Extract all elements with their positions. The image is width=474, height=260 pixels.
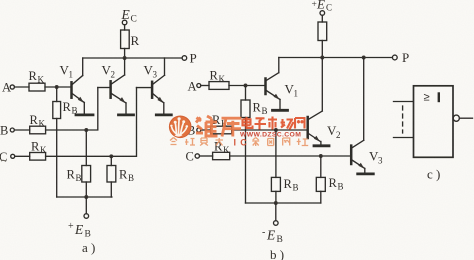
ground bar V3 emitter (a) [156, 114, 171, 117]
collector rail (b) [279, 57, 393, 59]
wire C row to V3 base corner (a) [46, 88, 137, 157]
resistor RK B-input (a) [30, 126, 46, 134]
resistor load (b) [318, 22, 327, 41]
gate input 1 wire (c) [394, 101, 414, 103]
wire B row to V2 base (b) [232, 129, 307, 131]
wire V2 emitter down (a) [125, 103, 127, 114]
paper noise overlay [0, 0, 1, 1]
OR gate U1 body (c) [414, 86, 454, 158]
transistor V3 (b) [350, 146, 353, 164]
power EB terminal (a) [84, 214, 89, 219]
watermark slogan row [170, 138, 223, 146]
power EB terminal (b) [274, 221, 279, 226]
wire B to RK (b) [201, 129, 211, 131]
wire EC to R [124, 25, 126, 30]
node B/RB2 junction (a) [84, 128, 88, 132]
gate output wire (c) [459, 117, 472, 119]
wire A to RK (a) [14, 86, 29, 88]
resistor RB1 (a) [56, 87, 58, 102]
transistor V2 (b) [306, 117, 309, 138]
gate input 2 wire (c) [394, 137, 414, 139]
resistor RB1 (b) [245, 86, 247, 101]
power +EC terminal (circuit a) [122, 20, 127, 25]
resistor RB2 (a) [85, 130, 87, 166]
node under R (a) [123, 56, 127, 60]
wire RB1 to bottom rail (a) [56, 119, 58, 198]
resistor RB2 (b) [275, 130, 277, 177]
transistor V3 (a) [151, 82, 154, 98]
node EB junction (b) [274, 201, 278, 205]
ground bar V2 emitter (a) [119, 114, 134, 117]
watermark big text 市 [268, 117, 277, 130]
bottom bias rail (a) [57, 196, 112, 198]
wire EC to R (b) [321, 15, 323, 22]
gate input ellipsis dashed (c) [402, 106, 404, 133]
wire RB1 to bottom rail (b) [245, 118, 247, 204]
wire C to RK (b) [200, 155, 213, 157]
watermark big text 电 [243, 117, 305, 130]
ground bar V1 emitter (b) [273, 109, 288, 112]
resistor RB3 (b) [320, 156, 322, 177]
resistor RK A-input (b) [209, 82, 229, 90]
resistor RK C-input (b) [213, 152, 230, 159]
watermark big text 维 [196, 116, 242, 137]
node A/RB1 junction (a) [55, 85, 59, 89]
resistor R (a) [121, 30, 130, 49]
resistor RK B-input (b) [211, 126, 232, 134]
node V3 collector (b) [362, 56, 366, 60]
node C/RB3 junction (a) [109, 154, 113, 158]
wire A to RK (b) [201, 85, 209, 87]
wire R to rail (b) [321, 41, 323, 58]
wire V1 emitter down (a) [83, 103, 85, 114]
scan artifact left edge squiggle [1, 160, 6, 161]
node A/RB1 junction (b) [244, 84, 248, 88]
wire C row to V3 base (b) [230, 155, 351, 157]
wire V3 emitter down (a) [163, 103, 165, 114]
wire to EB terminal (b) [275, 203, 277, 221]
wire RK to V1 base (b) [229, 85, 265, 87]
resistor RB3 (a) [110, 156, 112, 165]
watermark big text 子 [255, 118, 267, 129]
transistor V2 (a) [109, 81, 112, 97]
watermark big text 场 [281, 119, 294, 130]
wire R to rail [124, 49, 126, 59]
watermark big text 网 [295, 118, 305, 129]
transistor V1 (a) [70, 82, 73, 97]
wire V2 emitter down (b) [320, 142, 322, 145]
output P terminal (a) [182, 56, 187, 61]
output P terminal (b) [392, 55, 397, 60]
ground bar V3 emitter (b) [358, 172, 374, 175]
wire B to RK (a) [14, 129, 29, 131]
wire V3 emitter down (b) [364, 169, 366, 173]
node EB junction (a) [84, 195, 88, 199]
node under R (b) [320, 56, 324, 60]
bottom bias rail (b) [246, 202, 321, 204]
wire RK to V1 base (a) [45, 86, 71, 88]
resistor RK A-input (a) [29, 83, 45, 91]
node B/RB2 junction (b) [274, 128, 278, 132]
wire collector rail (a) [83, 57, 182, 59]
watermark logo disc [169, 116, 191, 138]
transistor V1 (b) [264, 79, 267, 95]
node C/RB3 junction (b) [319, 154, 323, 158]
watermark big text 库 [222, 118, 242, 136]
ground bar V2 emitter (b) [314, 144, 329, 147]
gate inversion bubble (c) [453, 115, 459, 121]
wire V1 emitter down (b) [279, 100, 281, 110]
watermark logo hand pattern [172, 121, 187, 135]
wire C to RK (a) [15, 155, 30, 157]
resistor RK C-input (a) [30, 153, 46, 161]
wire to EB terminal (a) [85, 197, 87, 214]
ground bar V1 emitter (a) [76, 114, 93, 117]
wire B row to V2 base corner (a) [46, 88, 98, 131]
